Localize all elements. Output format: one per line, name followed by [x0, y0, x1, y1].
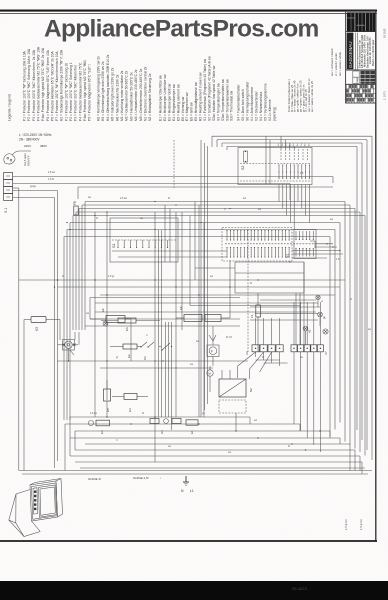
wire gauge labels — [30, 171, 371, 454]
svg-text:E5 = Heating element sw: E5 = Heating element sw — [176, 84, 180, 121]
title block frame — [346, 11, 376, 103]
svg-text:(opening): (opening) — [273, 107, 277, 121]
wires above strips — [256, 302, 321, 345]
svg-text:sw: sw — [88, 196, 91, 199]
svg-text:H1 = Siebanzeige Kontrollampe: H1 = Siebanzeige Kontrollampe 230V "W" r… — [60, 49, 64, 121]
svg-text:S6 = Verriegelungsschalter: S6 = Verriegelungsschalter — [246, 81, 250, 121]
svg-text:M3 = Heissluftmotor 50-300°C 2: M3 = Heissluftmotor 50-300°C 2x — [129, 72, 133, 121]
svg-text:2N~ 380/400V: 2N~ 380/400V — [19, 138, 40, 142]
svg-text:sw: sw — [243, 197, 246, 200]
lamp H4 — [316, 295, 324, 302]
svg-text:P6 = Protector Hohlleiter 65°C: P6 = Protector Hohlleiter 65°C "MO.VH" 2… — [50, 51, 54, 121]
connector strip X7 — [291, 345, 328, 355]
junction dots scattered — [54, 222, 341, 451]
svg-text:ws = weiss / white 4x 25: ws = weiss / white 4x 25 — [310, 81, 314, 112]
wire X1 pin3 to vertical bus — [13, 191, 58, 462]
svg-text:2,5 sw: 2,5 sw — [120, 197, 127, 200]
svg-text:220V: 220V — [24, 144, 31, 148]
svg-text:H05VV-F: H05VV-F — [27, 155, 31, 166]
svg-text:3x1,5 qmm: 3x1,5 qmm — [23, 153, 27, 166]
appliance body icon — [30, 479, 63, 522]
svg-text:M2 = Geblaesemotor 50-300°C 2x: M2 = Geblaesemotor 50-300°C 2x — [125, 70, 129, 121]
svg-text:H3 = Glimmlampe light oven 230: H3 = Glimmlampe light oven 230V ws 2x — [101, 61, 105, 121]
bottom labels — [88, 476, 162, 481]
svg-text:sw: sw — [254, 419, 257, 422]
svg-text:1. 1973: 1. 1973 — [383, 91, 387, 100]
svg-text:P4a= Protector high speed M2 7: P4a= Protector high speed M2 75°C "WG — [83, 60, 87, 121]
lamp H6 — [323, 329, 328, 334]
motor M3 — [207, 366, 213, 392]
svg-text:S3b= Temperaturwaehler sw: S3b= Temperaturwaehler sw — [225, 79, 229, 121]
svg-text:P3 = Protector 333°C "MC" Klix: P3 = Protector 333°C "MC" Klixon ther — [74, 64, 78, 121]
svg-text:S2a= Indicator low speed 42 Ta: S2a= Indicator low speed 42 Takte sw — [212, 65, 216, 121]
svg-text:X1 = Anschlussklemme: X1 = Anschlussklemme — [250, 87, 254, 121]
svg-text:S4 = Tuerkontaktschalter: S4 = Tuerkontaktschalter — [237, 84, 241, 121]
svg-text:1,5 gr: 1,5 gr — [108, 275, 114, 278]
svg-text:E1 = Heizkoerper Oberhitze sw: E1 = Heizkoerper Oberhitze sw — [159, 75, 163, 121]
pump motor M4 — [58, 332, 80, 361]
svg-text:X3: X3 — [245, 351, 249, 355]
top nested loop wires — [212, 136, 372, 460]
svg-text:sw: sw — [300, 356, 303, 359]
appliance cabinet icon — [9, 490, 40, 537]
svg-text:380V: 380V — [40, 144, 47, 148]
svg-text:P4a= Protector high speed M2 7: P4a= Protector high speed M2 75°C "WG" 2… — [41, 47, 45, 121]
svg-text:L1: L1 — [190, 489, 194, 493]
svg-text:GN/GE 4²: GN/GE 4² — [88, 477, 101, 481]
motor M2 — [207, 326, 219, 366]
svg-text:H2: H2 — [308, 329, 312, 333]
svg-text:E4: E4 — [128, 408, 132, 412]
heater E1 — [186, 420, 198, 434]
svg-text:X 1: X 1 — [4, 208, 8, 213]
main bus bundle — [64, 202, 365, 456]
svg-text:E3 = Heizkoerper Grill sw: E3 = Heizkoerper Grill sw — [167, 83, 171, 121]
svg-text:X5 = Verbindungsklemme: X5 = Verbindungsklemme — [264, 83, 268, 121]
svg-text:F6: F6 — [73, 201, 77, 205]
svg-text:H3: H3 — [160, 430, 164, 434]
right mid stub wires — [250, 244, 343, 320]
svg-text:X2.1= Klemme: X2.1= Klemme — [268, 99, 272, 121]
svg-text:1,5 bl: 1,5 bl — [48, 178, 54, 181]
heater E4 — [112, 394, 148, 413]
svg-text:br: br — [262, 356, 264, 359]
svg-text:br: br — [250, 282, 252, 285]
wire X1 pin4 — [13, 198, 55, 469]
svg-text:S3a= Temperaturschalter sw: S3a= Temperaturschalter sw — [221, 79, 225, 121]
title block approval boxes — [353, 71, 375, 84]
svg-text:F: F — [211, 350, 213, 354]
switch contacts S3 — [140, 342, 170, 360]
svg-text:P3 = Protector 333°C "MC" Klix: P3 = Protector 333°C "MC" Klixon therm. … — [32, 49, 36, 121]
mains supply text — [19, 133, 52, 148]
heater E5 vertical — [104, 380, 111, 417]
title block description text — [357, 34, 375, 68]
svg-text:S5 = Door lock switch: S5 = Door lock switch — [241, 89, 245, 121]
svg-text:E8 = Grill sw: E8 = Grill sw — [190, 102, 194, 121]
svg-text:E5: E5 — [106, 408, 110, 412]
right side notes — [344, 518, 363, 530]
lamp H5 — [318, 312, 326, 319]
legend column E1-S3 — [159, 56, 234, 121]
svg-text:sw: sw — [228, 451, 231, 454]
svg-text:E9 = Heissluftgeblaese sw: E9 = Heissluftgeblaese sw — [194, 82, 198, 121]
svg-text:N1 = Electronic clock/timer ce: N1 = Electronic clock/timer central 2x — [144, 66, 148, 121]
svg-text:P7 = Protector 152°C "W" Klixo: P7 = Protector 152°C "W" Klixon thermisc… — [55, 51, 59, 121]
mid horizontal wires — [19, 280, 345, 326]
resistor E8 — [176, 260, 230, 322]
lower bus corner drops — [65, 417, 362, 474]
legend column H2-N2 — [97, 54, 153, 121]
svg-text:M5 = Drehtellermotor 230-485°C: M5 = Drehtellermotor 230-485°C 2x — [139, 68, 143, 121]
lamp H2 — [303, 300, 320, 345]
lower bus rows — [65, 417, 365, 468]
title block revision grid — [346, 84, 376, 102]
wire drops from bus — [165, 202, 248, 418]
svg-text:Legende / Legend: Legende / Legend — [8, 94, 12, 121]
S2 timer block — [238, 136, 312, 229]
svg-text:br: br — [96, 217, 98, 220]
svg-text:gn/ge: gn/ge — [30, 185, 37, 188]
svg-text:H4 = Ofenbeleuchtung backofen: H4 = Ofenbeleuchtung backofen 25W E14 2x — [106, 54, 110, 121]
grill E3 — [88, 420, 109, 434]
svg-text:E6 = Vorrang sw: E6 = Vorrang sw — [181, 96, 185, 121]
svg-text:M4 = Umwaelzmotor 230-485°C 2x: M4 = Umwaelzmotor 230-485°C 2x — [134, 69, 138, 121]
svg-text:E4 = Ringheizkoerper sw: E4 = Ringheizkoerper sw — [172, 84, 176, 121]
bottom black bar — [0, 581, 388, 600]
svg-text:ws = weiss / white: ws = weiss / white — [338, 52, 342, 76]
svg-text:gr: gr — [116, 356, 118, 359]
lamp H3 assembly — [150, 419, 181, 435]
wire rows mid — [58, 251, 249, 369]
svg-text:sw: sw — [368, 328, 371, 331]
svg-text:H6 = Nachtmusleuchte 230V 2x: H6 = Nachtmusleuchte 230V 2x — [115, 74, 119, 121]
svg-text:E2: E2 — [127, 354, 131, 358]
svg-text:X7: X7 — [324, 351, 328, 355]
svg-text:K3: K3 — [35, 327, 39, 331]
outer schematic border bottom — [19, 471, 372, 475]
svg-text:S1: S1 — [112, 244, 116, 248]
svg-text:E7 = Magnetron sw: E7 = Magnetron sw — [185, 92, 189, 121]
svg-text:S2: S2 — [241, 166, 245, 170]
heater E2 box — [110, 344, 141, 358]
svg-text:Gepr.: Gepr. — [356, 77, 359, 83]
svg-text:P1 = Protector 133°C "W" Siche: P1 = Protector 133°C "W" Sicherung 16A t… — [23, 50, 27, 121]
plug symbol — [4, 151, 31, 166]
svg-text:S3 = Temperaturregler sw: S3 = Temperaturregler sw — [216, 83, 220, 121]
svg-text:sw: sw — [258, 208, 261, 211]
junction dots on bus — [94, 201, 230, 230]
svg-text:P2 = Protector 133°C "WC" Sich: P2 = Protector 133°C "WC" Sicherung 16A … — [27, 48, 31, 121]
svg-text:R2 = Heating element in oven: R2 = Heating element in oven sw — [199, 72, 203, 121]
svg-text:sw: sw — [210, 275, 213, 278]
resistor E6 — [101, 318, 160, 331]
legend header — [8, 94, 12, 121]
svg-text:E6: E6 — [125, 327, 129, 331]
svg-text:GAGGENAU: GAGGENAU — [348, 41, 353, 68]
svg-text:N2: N2 — [249, 388, 253, 392]
svg-text:P4 = Protector Geblaesemotor M: P4 = Protector Geblaesemotor M2 75°C — [78, 62, 82, 121]
svg-text:L ~220-230V 1N~50Hz: L ~220-230V 1N~50Hz — [19, 133, 52, 137]
svg-text:S3: S3 — [143, 356, 147, 360]
title block logo band — [347, 12, 375, 31]
svg-text:E9: E9 — [101, 308, 105, 312]
svg-text:29 1023: 29 1023 — [383, 28, 387, 38]
svg-text:X2 = Steckverbinder: X2 = Steckverbinder — [255, 90, 259, 121]
junction dots row — [159, 346, 172, 362]
svg-text:AppliancePartsPros.com: AppliancePartsPros.com — [44, 16, 319, 43]
svg-text:E8: E8 — [179, 306, 183, 310]
contactor K3 — [24, 317, 60, 471]
legend column P1-H1 — [23, 46, 92, 121]
svg-text:E1: E1 — [190, 430, 194, 434]
fuse F1 vertical — [250, 293, 260, 352]
svg-text:F1: F1 — [250, 314, 254, 318]
wire X1 pin2 — [13, 184, 290, 201]
wires below connector strips — [238, 352, 321, 452]
lamp H1 — [103, 321, 108, 326]
svg-text:1,5 qmm: 1,5 qmm — [359, 518, 363, 530]
svg-text:X4 = Netzanschluss: X4 = Netzanschluss — [259, 91, 263, 121]
connector strip X3 — [245, 345, 283, 355]
svg-text:S2 = Schaltuhr (Programm 42 Ta: S2 = Schaltuhr (Programm 42 Takte) A-B s… — [207, 56, 211, 121]
svg-text:N2 = Relaisplatine Steuerung 2: N2 = Relaisplatine Steuerung 2x — [148, 73, 152, 121]
svg-text:1,5 sw: 1,5 sw — [48, 171, 55, 174]
svg-text:1,5 qmm: 1,5 qmm — [344, 518, 348, 530]
selector S1 box — [95, 212, 178, 462]
svg-text:P1 = Protector 133°C "W" Siche: P1 = Protector 133°C "W" Sicherung 16 — [64, 63, 68, 121]
svg-text:GN/GE 2,5²: GN/GE 2,5² — [133, 476, 149, 480]
svg-text:sw: sw — [196, 340, 199, 343]
top page border double line — [0, 11, 377, 14]
svg-text:M1 = Kuehlung motor ventilator: M1 = Kuehlung motor ventilator 2x — [120, 70, 124, 121]
svg-text:E2 = Heizkoerper Unterhitze sw: E2 = Heizkoerper Unterhitze sw — [163, 74, 167, 121]
svg-text:P4 = Protector Geblaesemotor M: P4 = Protector Geblaesemotor M2 75°C "WG… — [36, 46, 40, 121]
svg-text:bl 1,5: bl 1,5 — [226, 336, 233, 339]
dashed riser to S2 — [174, 140, 208, 417]
svg-text:S1 = Funktionsw. (Programm 42: S1 = Funktionsw. (Programm 42 Takte) sw — [203, 58, 207, 121]
svg-text:rt: rt — [320, 300, 324, 302]
wire X1 pin1 to right bus — [13, 177, 333, 184]
electronic clock N1 cluster — [222, 228, 316, 262]
svg-text:Blatt 1 v.1 Okt.83 gepr: Blatt 1 v.1 Okt.83 gepr — [371, 39, 375, 66]
svg-text:P5 = Protector Magnetron 85°C: P5 = Protector Magnetron 85°C "S.B" ther… — [46, 49, 50, 121]
outer schematic border left — [13, 188, 19, 471]
ground symbol — [181, 476, 194, 493]
svg-text:sw: sw — [330, 218, 333, 221]
legend color code 2 — [330, 48, 342, 76]
label F6 fuse — [73, 201, 78, 215]
title block brand column — [347, 33, 358, 70]
svg-text:S3c= Thermostat sw: S3c= Thermostat sw — [230, 90, 234, 121]
legend column S4-X2 — [237, 81, 277, 121]
relay box K2 — [235, 262, 304, 345]
relay board N2 — [219, 370, 253, 431]
svg-text:H5 = Indicator light oven 230V: H5 = Indicator light oven 230V gn 2x — [111, 67, 115, 121]
svg-text:P5 = Protector Magnetron 85°C: P5 = Protector Magnetron 85°C "S.B" t — [88, 64, 92, 121]
svg-text:35-4023 . .: 35-4023 . . — [292, 586, 311, 591]
svg-text:H2 = Kontrollampe Verriegelung: H2 = Kontrollampe Verriegelung 230V sw 2… — [97, 56, 101, 121]
connector X1 — [4, 173, 13, 214]
wires S2 top pins to loops — [281, 136, 294, 149]
svg-text:P2 = Protector 133°C "WC" Sich: P2 = Protector 133°C "WC" Sicherung 1 — [69, 62, 73, 121]
bottom page border — [0, 540, 377, 542]
wire bus top — [78, 187, 333, 199]
resistor E9 — [90, 298, 131, 362]
legend color code — [287, 78, 314, 112]
right page border — [375, 10, 377, 542]
svg-text:1,5 sw: 1,5 sw — [90, 412, 97, 415]
svg-text:E3: E3 — [100, 430, 104, 434]
page margin marks right — [383, 28, 387, 100]
